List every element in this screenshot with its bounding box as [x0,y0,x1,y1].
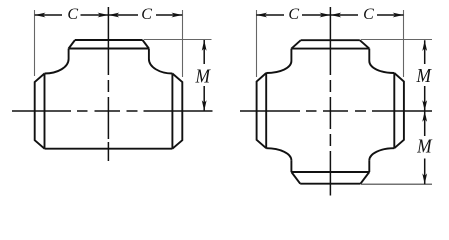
cross top face [301,39,360,41]
tee vertical centerline [12,7,213,161]
cross top-left fillet [266,61,291,73]
tee branch right side [148,49,150,60]
svg-text:C: C [288,6,299,23]
cross top-right fillet [369,61,394,73]
tee M dimension line [203,40,205,111]
tee horizontal centerline [12,110,213,112]
cross bottom face [300,183,360,185]
cross bottom branch right side [368,160,370,172]
tee branch left side [68,49,70,60]
cross M top dimension line [424,40,426,111]
cross top branch left side [290,49,292,61]
svg-text:C: C [67,6,78,23]
cross horizontal centerline [240,110,432,112]
cross top branch right side [368,49,370,61]
tee right fillet [149,59,173,74]
tee M extension line top [144,39,212,41]
tee bottom edge [45,148,173,150]
cross left bevel edge [265,73,267,148]
tee C dimension extension line right [182,10,184,77]
svg-text:M: M [416,65,433,87]
tee left fillet [45,59,69,74]
tee top face [75,39,143,41]
cross M extension line top [361,39,432,41]
svg-text:C: C [141,6,152,23]
cross C dimension extension line right [403,10,405,77]
svg-text:M: M [195,66,212,88]
cross C dimension extension line left [257,10,433,184]
cross right bevel edge [393,73,395,148]
cross vertical centerline [240,7,432,196]
tee right end chamfers and face [172,74,182,149]
cross dimension arrowheads [256,13,267,18]
cross bottom-left fillet [266,148,291,160]
cross bottom-right fillet [369,148,394,160]
cross bottom-right chamfer [361,172,370,184]
tee right bevel edge [171,74,173,149]
tee branch shoulder line [69,48,149,50]
cross top-right chamfer [360,40,370,48]
cross M extension line bottom [361,183,432,185]
tee left end chamfers and face [35,74,45,149]
cross bottom-left chamfer [291,172,300,184]
cross bottom branch left side [290,160,292,172]
tee dimension arrowheads [35,13,46,18]
tee C dimension extension line left [35,10,212,77]
cross M bottom dimension line [424,111,426,184]
cross right end chamfers and face [394,73,404,148]
cross top-left chamfer [291,40,300,48]
svg-text:M: M [416,135,433,157]
cross left end chamfers and face [257,73,267,148]
cross top shoulder line [291,48,369,50]
tee left bevel edge [44,74,46,149]
tee top-right chamfer [143,40,149,49]
svg-text:C: C [363,6,374,23]
cross C dimension lines [256,15,424,184]
tee top-left chamfer [69,40,75,49]
tee C dimension lines [35,15,205,111]
cross bottom shoulder line [291,171,369,173]
